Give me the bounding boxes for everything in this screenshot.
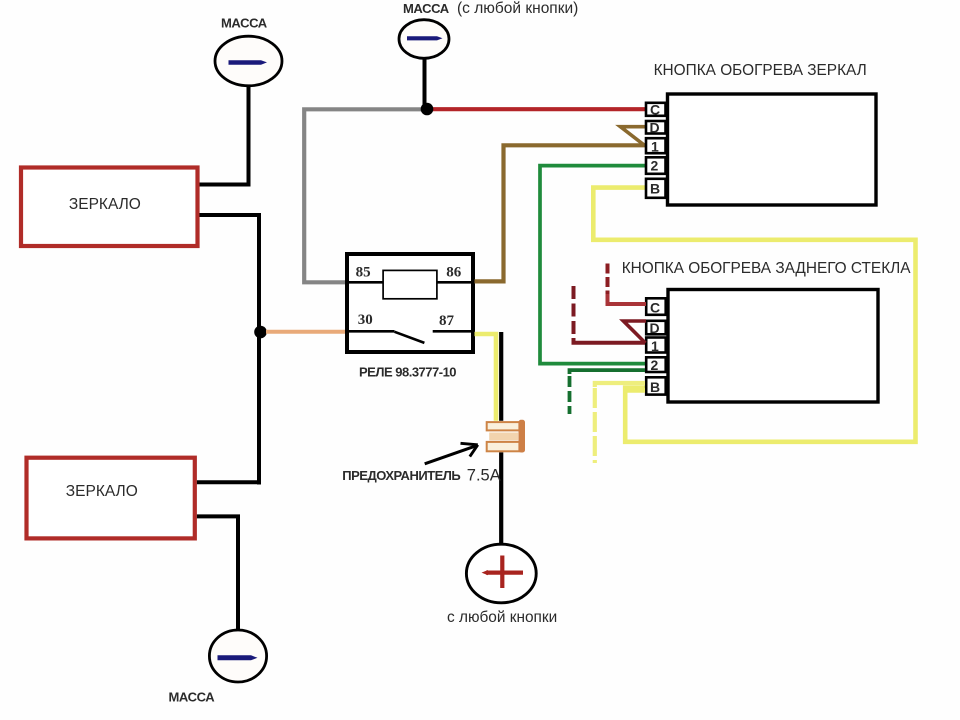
ground symbol G1 blue bar <box>229 60 268 64</box>
wire dark-red: button2 pin D stub <box>623 321 646 343</box>
fuse F1 middle bar <box>489 433 518 441</box>
svg-text:1: 1 <box>651 139 659 155</box>
mirror block ЗЕРКАЛО (upper) <box>21 168 198 247</box>
relay coil line <box>347 281 473 284</box>
wire yellow: button1 pin B loop to button2 pin B <box>593 188 915 442</box>
ground symbol G1 ellipse <box>215 36 282 86</box>
battery plus cross <box>486 556 523 589</box>
svg-text:D: D <box>650 120 660 136</box>
mirror block ЗЕРКАЛО (lower) <box>27 458 195 539</box>
ground symbol G3 ellipse (bottom) <box>209 630 266 682</box>
button2 pin B cell <box>646 377 666 394</box>
svg-text:РЕЛЕ 98.3777-10: РЕЛЕ 98.3777-10 <box>359 364 456 379</box>
button1 pin D cell <box>646 121 666 134</box>
wire gray: junction to relay pin 85 <box>304 109 427 282</box>
wire brown: relay 86 to button1 pin 1 <box>475 145 646 281</box>
svg-text:7.5А: 7.5А <box>467 466 501 484</box>
wire pale-yellow: button2 pin B stub <box>595 383 645 387</box>
button2 pin 1 cell <box>646 338 666 353</box>
junction node dot (mirrors) <box>254 326 267 339</box>
relay switch blade <box>395 332 425 343</box>
wire brown: button1 pin D stub <box>620 127 645 146</box>
button2 pin D cell <box>646 321 666 335</box>
fuse F1 right bar <box>519 420 526 453</box>
button2 pin 2 cell <box>646 357 666 372</box>
wire black: mirror1 pin2 down to junction dot <box>200 215 260 485</box>
wire dark-red: button2 pin C <box>606 294 647 304</box>
svg-text:85: 85 <box>356 264 371 280</box>
svg-text:2: 2 <box>651 357 659 373</box>
svg-text:ЗЕРКАЛО: ЗЕРКАЛО <box>69 196 141 213</box>
button1 pin 1 cell <box>646 138 666 153</box>
wire dark-red: to button2 pin 1 <box>574 338 646 343</box>
svg-text:ПРЕДОХРАНИТЕЛЬ: ПРЕДОХРАНИТЕЛЬ <box>342 468 460 483</box>
relay switch contact 30 <box>347 330 395 333</box>
wire black: G1 to mirror1 pin <box>200 86 249 185</box>
wire dark-red dashed: stub above button2 pin C <box>606 264 610 297</box>
svg-text:B: B <box>650 379 660 395</box>
wire black: mirror2 pin2 to ground G3 <box>197 516 238 631</box>
svg-text:КНОПКА ОБОГРЕВА ЗЕРКАЛ: КНОПКА ОБОГРЕВА ЗЕРКАЛ <box>654 62 867 79</box>
svg-text:МАССА: МАССА <box>221 16 268 31</box>
ground symbol G3 blue bar <box>218 655 258 660</box>
battery symbol circle <box>466 544 536 603</box>
wire pale-yellow dashed: stub down <box>593 388 597 463</box>
ground symbol G2 blue bar <box>407 36 443 40</box>
svg-text:87: 87 <box>439 313 455 329</box>
svg-text:ЗЕРКАЛО: ЗЕРКАЛО <box>66 483 138 500</box>
wire dark-green: button2 pin 2 short stub <box>570 370 646 374</box>
svg-text:(с любой кнопки): (с любой кнопки) <box>457 0 578 17</box>
fuse F1 top bar <box>487 422 520 430</box>
wire black: fuse to battery <box>499 332 503 543</box>
svg-text:1: 1 <box>651 338 659 354</box>
wire yellow: relay 87 to fuse <box>475 334 497 422</box>
wire black: G2 down to junction <box>423 58 427 107</box>
wire green: button1 pin 2 to button2 pin 2 <box>540 166 645 364</box>
svg-text:2: 2 <box>651 158 659 174</box>
button1 box <box>668 94 877 205</box>
relay box РЕЛЕ 98.3777-10 <box>347 254 473 352</box>
button1 pin 2 cell <box>646 157 666 174</box>
svg-text:D: D <box>650 320 660 336</box>
svg-text:МАССА: МАССА <box>169 690 216 705</box>
svg-text:30: 30 <box>358 312 373 328</box>
fuse F1 bottom bar <box>487 442 520 451</box>
button2 box <box>668 290 878 403</box>
button2 pin C cell <box>646 298 666 315</box>
svg-text:МАССА: МАССА <box>403 1 450 16</box>
svg-text:B: B <box>650 181 660 197</box>
button1 pin B cell <box>646 179 666 198</box>
svg-text:86: 86 <box>446 264 462 280</box>
wire black: junction down to mirror2 pin1 <box>197 480 261 484</box>
wire red: junction to button1 pin C <box>427 107 646 111</box>
wire dark-green dashed: stub down <box>568 376 572 414</box>
svg-text:КНОПКА ОБОГРЕВА ЗАДНЕГО СТЕКЛА: КНОПКА ОБОГРЕВА ЗАДНЕГО СТЕКЛА <box>622 260 912 277</box>
wire yellow: button2 pin B solid link <box>625 388 645 393</box>
wire orange: junction to relay pin 30 <box>266 330 346 334</box>
relay coil rectangle <box>383 270 437 298</box>
ground symbol G2 ellipse <box>399 20 449 59</box>
fuse F1 white backing <box>486 421 521 453</box>
relay switch contact 87 <box>433 330 473 333</box>
button1 pin C cell <box>646 103 666 116</box>
wire dark-red dashed: stub left of button2 pin 1 <box>572 286 576 340</box>
junction node dot at G2 <box>421 103 434 116</box>
arrow to fuse <box>425 445 478 464</box>
svg-text:с любой кнопки: с любой кнопки <box>447 609 557 626</box>
svg-text:C: C <box>650 300 660 316</box>
svg-text:C: C <box>650 102 660 118</box>
